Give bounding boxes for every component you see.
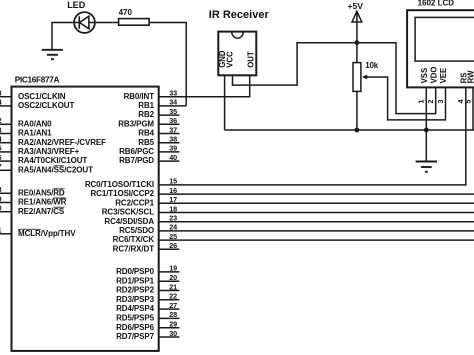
svg-text:27: 27 [169, 301, 177, 310]
pin 9 RE1/ (left) [0, 194, 67, 206]
svg-text:8: 8 [0, 185, 2, 194]
pin 6 RA4/T0CKI/C1OUT (left) [0, 153, 87, 165]
pin 23 RC4/SDI/SDA (right) [104, 214, 474, 226]
svg-text:OUT: OUT [247, 51, 256, 68]
svg-text:40: 40 [169, 153, 177, 162]
svg-text:RC7/RX/DT: RC7/RX/DT [113, 244, 155, 253]
svg-text:21: 21 [169, 282, 177, 291]
pin 15 RC0/T1OSO/T1CKI (right) [85, 177, 466, 189]
svg-text:VSS: VSS [420, 68, 429, 84]
svg-text:3: 3 [438, 100, 445, 104]
svg-text:RC0/T1OSO/T1CKI: RC0/T1OSO/T1CKI [85, 180, 154, 189]
svg-text:RB7/PGD: RB7/PGD [119, 156, 154, 165]
pin 39 RB6/PGC (right) [119, 144, 179, 156]
pin 17 RC2/CCP1 (right) [115, 195, 474, 207]
resistor R1 470 [119, 8, 150, 25]
wire pot wiper to LCD VEE [387, 76, 446, 120]
pin 19 RD0/PSP0 (right) [116, 264, 179, 276]
LCD pin 3 VEE wire [445, 87, 447, 120]
svg-text:38: 38 [169, 135, 177, 144]
pin 10 RE2/ (left) [0, 204, 65, 216]
svg-text:PIC16F877A: PIC16F877A [15, 75, 60, 84]
svg-text:39: 39 [169, 144, 177, 153]
svg-text:RA2/AN2/VREF-/CVREF: RA2/AN2/VREF-/CVREF [18, 138, 106, 147]
pin 18 RC3/SCK/SCL (right) [102, 204, 474, 216]
pin 29 RD6/PSP6 (right) [116, 320, 179, 332]
svg-text:2: 2 [0, 116, 2, 125]
junction VSS/ground bus [424, 128, 429, 133]
pin 28 RD5/PSP5 (right) [116, 310, 179, 322]
wire +5V to LCD VDO [395, 42, 435, 114]
svg-text:RE2/AN7/CS: RE2/AN7/CS [18, 207, 65, 216]
pin 38 RB5 (right) [138, 135, 179, 147]
svg-text:VDO: VDO [429, 66, 438, 83]
svg-text:18: 18 [169, 204, 177, 213]
svg-text:RC6/TX/CK: RC6/TX/CK [113, 235, 155, 244]
pin 13 OSC1/CLKIN (left) [0, 89, 66, 101]
ground (LCD VSS) [416, 130, 437, 172]
pin 35 RB2 (right) [138, 107, 179, 119]
+5V rail wire [296, 42, 396, 44]
+5V supply symbol [348, 1, 364, 43]
svg-text:RD4/PSP4: RD4/PSP4 [116, 304, 155, 313]
pin 16 RC1/T1OSI/CCP2 (right) [90, 186, 474, 198]
svg-text:1: 1 [0, 226, 2, 235]
ground (LED) [42, 50, 63, 59]
svg-text:34: 34 [169, 98, 177, 107]
wire resistor to RB1 [149, 22, 186, 106]
svg-text:470: 470 [119, 8, 133, 17]
svg-text:RA3/AN3/VREF+: RA3/AN3/VREF+ [18, 147, 80, 156]
svg-text:16: 16 [169, 186, 177, 195]
pin 5 RA3/AN3/VREF+ (left) [0, 144, 80, 156]
svg-text:37: 37 [169, 125, 177, 134]
svg-text:17: 17 [169, 195, 177, 204]
svg-text:19: 19 [169, 264, 177, 273]
svg-text:15: 15 [169, 177, 177, 186]
svg-text:36: 36 [169, 116, 177, 125]
pin 21 RD2/PSP2 (right) [116, 282, 179, 294]
pin 7 RA5/ (left) [0, 162, 93, 174]
svg-text:RB5: RB5 [138, 138, 154, 147]
pin 22 RD3/PSP3 (right) [116, 292, 179, 304]
junction pot/ground bus [355, 128, 360, 133]
pin 24 RC5/SDO (right) [119, 223, 474, 235]
pin 1 (left) [0, 226, 76, 238]
svg-text:RD0/PSP0: RD0/PSP0 [116, 267, 155, 276]
svg-text:1: 1 [419, 100, 426, 104]
LCD pin 4 RS wire [465, 87, 467, 185]
pin 2 RA0/AN0 (left) [0, 116, 52, 128]
ground bus wire [225, 129, 474, 131]
svg-text:2: 2 [428, 100, 435, 104]
svg-text:14: 14 [0, 98, 2, 107]
svg-text:6: 6 [0, 153, 2, 162]
svg-text:RE0/AN5/RD: RE0/AN5/RD [18, 188, 65, 197]
pin 14 OSC2/CLKOUT (left) [0, 98, 74, 110]
svg-text:RB4: RB4 [138, 129, 154, 138]
pin 27 RD4/PSP4 (right) [116, 301, 179, 313]
svg-text:22: 22 [169, 292, 177, 301]
svg-text:10k: 10k [365, 61, 378, 70]
svg-text:RD2/PSP2: RD2/PSP2 [116, 286, 155, 295]
svg-text:RD7/PSP7: RD7/PSP7 [116, 332, 155, 341]
1602 LCD module [407, 0, 474, 87]
pin 20 RD1/PSP1 (right) [116, 273, 179, 285]
svg-text:IR Receiver: IR Receiver [209, 9, 270, 21]
svg-text:4: 4 [0, 135, 2, 144]
junction +5V/pot [355, 40, 360, 45]
potentiometer RV1 10k [353, 43, 388, 130]
svg-text:RA5/AN4/SS/C2OUT: RA5/AN4/SS/C2OUT [18, 165, 93, 174]
svg-text:RA1/AN1: RA1/AN1 [18, 129, 52, 138]
pin 33 RB0/INT (right) [124, 89, 250, 101]
svg-text:5: 5 [0, 144, 2, 153]
svg-text:VEE: VEE [439, 68, 448, 84]
svg-text:RA0/AN0: RA0/AN0 [18, 119, 52, 128]
svg-text:RW: RW [467, 70, 474, 83]
svg-text:24: 24 [169, 223, 177, 232]
IR receiver module U2 [209, 9, 270, 75]
svg-text:10: 10 [0, 204, 2, 213]
svg-text:+5V: +5V [348, 1, 364, 11]
svg-text:RD6/PSP6: RD6/PSP6 [116, 323, 155, 332]
svg-text:RB0/INT: RB0/INT [124, 92, 155, 101]
svg-text:25: 25 [169, 232, 177, 241]
svg-text:9: 9 [0, 194, 2, 203]
svg-text:7: 7 [0, 162, 2, 171]
pin 30 RD7/PSP7 (right) [116, 329, 179, 341]
wire IR OUT to RB0 [249, 75, 251, 97]
svg-text:LED: LED [67, 0, 86, 10]
svg-text:RD3/PSP3: RD3/PSP3 [116, 295, 155, 304]
svg-text:RC1/T1OSI/CCP2: RC1/T1OSI/CCP2 [90, 189, 154, 198]
LCD pin 5 RW wire [472, 87, 474, 130]
svg-text:28: 28 [169, 310, 177, 319]
svg-text:VCC: VCC [226, 51, 235, 68]
svg-text:RB2: RB2 [138, 110, 154, 119]
svg-text:OSC1/CLKIN: OSC1/CLKIN [18, 92, 66, 101]
svg-text:4: 4 [458, 100, 465, 104]
pin 40 RB7/PGD (right) [119, 153, 179, 165]
svg-text:RC3/SCK/SCL: RC3/SCK/SCL [102, 208, 154, 217]
PIC16F877A chip body U1 [12, 75, 159, 351]
svg-text:35: 35 [169, 107, 177, 116]
svg-text:MCLR/Vpp/THV: MCLR/Vpp/THV [18, 229, 76, 238]
svg-text:1602 LCD: 1602 LCD [418, 0, 455, 8]
svg-text:RB6/PGC: RB6/PGC [119, 147, 154, 156]
LCD pin 1 VSS wire [425, 87, 427, 130]
pin 8 RE0/ (left) [0, 185, 65, 197]
LCD pin 2 VDO wire [435, 87, 437, 114]
pin 37 RB4 (right) [138, 125, 179, 137]
svg-text:RB1: RB1 [138, 101, 154, 110]
svg-text:RD1/PSP1: RD1/PSP1 [116, 276, 155, 285]
svg-text:RE1/AN6/WR: RE1/AN6/WR [18, 198, 67, 207]
pin 25 RC6/TX/CK (right) [113, 232, 474, 244]
svg-text:RB3/PGM: RB3/PGM [118, 119, 154, 128]
pin 4 RA2/AN2/VREF-/CVREF (left) [0, 135, 106, 147]
svg-text:33: 33 [169, 89, 177, 98]
wire IR VCC to +5V rail [232, 43, 297, 86]
svg-text:13: 13 [0, 89, 2, 98]
svg-text:RA4/T0CKI/C1OUT: RA4/T0CKI/C1OUT [18, 156, 87, 165]
pin 34 RB1 (right) [138, 98, 186, 110]
svg-text:RC5/SDO: RC5/SDO [119, 226, 154, 235]
svg-text:20: 20 [169, 273, 177, 282]
pin 3 RA1/AN1 (left) [0, 125, 52, 137]
svg-text:30: 30 [169, 329, 177, 338]
LED D1 [67, 0, 95, 33]
svg-text:26: 26 [169, 241, 177, 250]
wire LED cathode to resistor [89, 22, 119, 24]
svg-text:RD5/PSP5: RD5/PSP5 [116, 314, 155, 323]
svg-text:29: 29 [169, 320, 177, 329]
svg-text:3: 3 [0, 125, 2, 134]
wire IR GND to ground bus [224, 75, 226, 130]
wire LED anode to ground corner [52, 22, 79, 50]
svg-text:OSC2/CLKOUT: OSC2/CLKOUT [18, 101, 74, 110]
pin 36 RB3/PGM (right) [118, 116, 179, 128]
svg-text:RC4/SDI/SDA: RC4/SDI/SDA [104, 217, 154, 226]
svg-text:RC2/CCP1: RC2/CCP1 [115, 198, 154, 207]
pin 26 RC7/RX/DT (right) [113, 241, 180, 253]
svg-text:23: 23 [169, 214, 177, 223]
